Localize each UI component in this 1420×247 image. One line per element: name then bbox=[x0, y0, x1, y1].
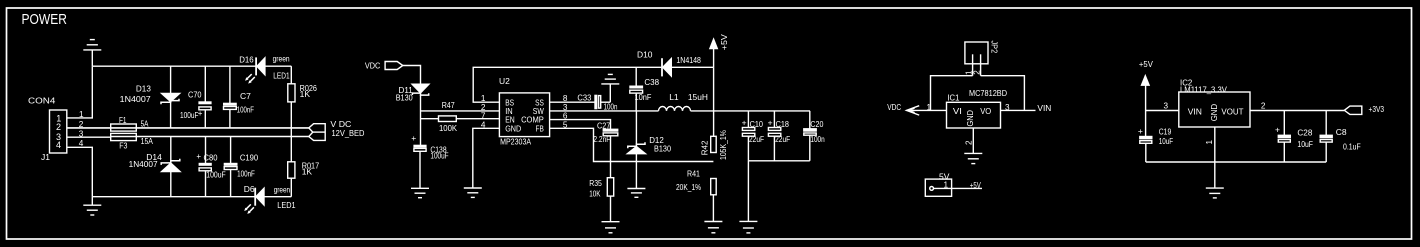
svg-text:105K_1%: 105K_1% bbox=[718, 130, 728, 160]
svg-text:1K: 1K bbox=[300, 89, 311, 99]
ground GND IC2 bbox=[1206, 188, 1224, 198]
resistor R41 20K_1% bbox=[711, 179, 717, 222]
diode D13 1N4007 bbox=[161, 66, 180, 128]
svg-text:C190: C190 bbox=[240, 152, 258, 162]
svg-text:2.2nF: 2.2nF bbox=[593, 134, 610, 144]
capacitor C7 bbox=[224, 66, 237, 128]
svg-text:FB: FB bbox=[536, 123, 545, 133]
svg-text:VOUT: VOUT bbox=[1221, 107, 1243, 117]
wire IC1 GND pin bbox=[972, 128, 974, 153]
wire JP2 pin1 to VI bbox=[931, 76, 973, 111]
port VDC arrow left bbox=[907, 106, 947, 115]
svg-text:15A: 15A bbox=[141, 136, 154, 146]
svg-text:LED1: LED1 bbox=[273, 71, 290, 81]
svg-text:2: 2 bbox=[1261, 101, 1266, 110]
svg-text:20K_1%: 20K_1% bbox=[676, 182, 701, 192]
svg-text:C80: C80 bbox=[204, 152, 218, 162]
svg-text:+: + bbox=[742, 118, 747, 128]
capacitor C8 0.1uF bbox=[1320, 111, 1332, 163]
svg-text:10uF: 10uF bbox=[1297, 139, 1313, 149]
ground GND C138 bbox=[411, 188, 429, 197]
svg-text:10nF: 10nF bbox=[635, 92, 652, 102]
svg-text:10uF: 10uF bbox=[1159, 136, 1173, 146]
wire VDC to D11 bbox=[403, 66, 421, 84]
ground GND R35 bbox=[602, 222, 620, 233]
wire SW node bbox=[550, 110, 659, 112]
svg-text:+3V3: +3V3 bbox=[1369, 104, 1385, 114]
svg-text:IC1: IC1 bbox=[947, 92, 959, 102]
svg-text:green: green bbox=[273, 54, 290, 64]
svg-text:B130: B130 bbox=[654, 144, 671, 154]
wire JP2 pin2 to VO bbox=[981, 76, 1025, 111]
svg-text:10K: 10K bbox=[589, 189, 601, 199]
inductor L1 15uH bbox=[659, 107, 691, 111]
svg-text:U2: U2 bbox=[499, 76, 510, 86]
capacitor C10 22uF bbox=[742, 111, 754, 161]
svg-text:1N4007: 1N4007 bbox=[120, 94, 151, 104]
svg-text:1N4148: 1N4148 bbox=[676, 55, 701, 65]
wire CON4 pin4 drop bbox=[67, 147, 93, 196]
ground GND bottom-left bbox=[83, 197, 101, 215]
svg-text:C7: C7 bbox=[240, 91, 251, 101]
capacitor C138 100uF bbox=[411, 133, 426, 188]
fuse F3 bbox=[111, 133, 137, 140]
wire +5V column bbox=[713, 67, 715, 136]
power +5V arrow section4 bbox=[1142, 76, 1150, 137]
svg-text:VO: VO bbox=[980, 106, 991, 116]
svg-text:1: 1 bbox=[926, 103, 931, 112]
power +5V arrow mid bbox=[710, 39, 717, 67]
svg-text:+5V: +5V bbox=[719, 34, 729, 50]
svg-text:7: 7 bbox=[481, 112, 486, 121]
capacitor C28 10uF bbox=[1278, 111, 1290, 163]
svg-text:C28: C28 bbox=[1297, 127, 1312, 137]
wire VO to VIN bbox=[1001, 109, 1036, 111]
svg-text:1: 1 bbox=[944, 180, 949, 189]
svg-text:R47: R47 bbox=[442, 100, 455, 110]
ground GND R41 bbox=[704, 222, 722, 233]
ground GND top-left (inverted) bbox=[83, 40, 101, 67]
svg-text:JP2: JP2 bbox=[990, 41, 1000, 54]
svg-text:C33: C33 bbox=[577, 92, 591, 102]
wire ground rail top bbox=[92, 65, 256, 67]
wire U2 GND pin to ground bbox=[473, 128, 500, 188]
wire CON4 pin3 to fuse bbox=[67, 136, 111, 138]
svg-text:1N4007: 1N4007 bbox=[129, 159, 158, 169]
resistor R35 10K bbox=[607, 178, 613, 222]
capacitor C33 soft-start bbox=[550, 84, 611, 108]
connector J1 CON4 bbox=[50, 110, 67, 153]
resistor R47 100K bbox=[421, 116, 500, 122]
svg-text:+5V: +5V bbox=[1139, 59, 1153, 69]
svg-text:100n: 100n bbox=[604, 101, 618, 111]
svg-text:+: + bbox=[198, 109, 203, 118]
diode D11 B130 bbox=[412, 84, 429, 145]
svg-text:C8: C8 bbox=[1336, 127, 1347, 137]
wire VOUT to 3V3 bbox=[1250, 110, 1344, 112]
svg-text:F3: F3 bbox=[119, 141, 127, 151]
diode D12 B130 bbox=[627, 111, 645, 189]
svg-text:MP2303A: MP2303A bbox=[500, 136, 531, 146]
svg-text:5A: 5A bbox=[141, 119, 149, 129]
svg-text:C18: C18 bbox=[776, 119, 790, 129]
svg-text:2: 2 bbox=[481, 103, 486, 112]
svg-text:100n: 100n bbox=[810, 134, 824, 144]
wire L1 to output node bbox=[691, 110, 714, 112]
svg-text:22uF: 22uF bbox=[775, 134, 790, 144]
svg-text:+5V: +5V bbox=[970, 180, 981, 190]
svg-text:100uF: 100uF bbox=[180, 110, 199, 120]
svg-text:D10: D10 bbox=[637, 50, 653, 60]
svg-text:100K: 100K bbox=[439, 123, 457, 133]
svg-text:MC7812BD: MC7812BD bbox=[969, 88, 1007, 98]
LED D6 green bbox=[244, 188, 291, 214]
resistor R017 1K bbox=[288, 162, 295, 197]
svg-text:GND: GND bbox=[965, 110, 975, 126]
wire bus 12V lower bbox=[111, 136, 309, 138]
capacitor C19 10uF bbox=[1138, 126, 1152, 162]
svg-text:POWER: POWER bbox=[22, 12, 67, 28]
svg-text:100uF: 100uF bbox=[206, 170, 225, 180]
capacitor C27 2.2nF bbox=[603, 129, 618, 177]
svg-text:B130: B130 bbox=[396, 93, 413, 103]
svg-text:2: 2 bbox=[964, 140, 973, 145]
port +3V3 flag bbox=[1344, 106, 1362, 114]
capacitor C80 bbox=[199, 137, 211, 197]
op IC U2 MP2303A bbox=[499, 93, 549, 137]
svg-text:+: + bbox=[196, 152, 201, 161]
svg-text:100nF: 100nF bbox=[237, 169, 255, 179]
diode D10 1N4148 bbox=[662, 58, 714, 76]
svg-text:C27: C27 bbox=[597, 120, 611, 130]
regulator IC1 MC7812BD bbox=[947, 102, 1001, 128]
svg-text:100uF: 100uF bbox=[430, 151, 448, 161]
svg-text:1: 1 bbox=[79, 110, 84, 119]
svg-text:4: 4 bbox=[56, 140, 61, 150]
svg-text:+: + bbox=[411, 133, 416, 143]
svg-text:VDC: VDC bbox=[365, 60, 380, 70]
capacitor C18 22uF bbox=[768, 111, 780, 161]
svg-text:C38: C38 bbox=[644, 77, 659, 87]
wire BS bootstrap top bbox=[473, 67, 661, 102]
wire caps bottom junction bbox=[748, 161, 809, 222]
wire output rail to caps bbox=[714, 110, 810, 112]
svg-text:J1: J1 bbox=[41, 152, 50, 162]
svg-text:GND: GND bbox=[1209, 104, 1219, 121]
LED D16 green bbox=[245, 57, 291, 83]
svg-text:2: 2 bbox=[56, 122, 61, 132]
svg-text:GND: GND bbox=[505, 123, 521, 133]
svg-text:D16: D16 bbox=[239, 54, 254, 64]
resistor R026 1K bbox=[288, 66, 295, 162]
wire +5V to VIN bbox=[1146, 110, 1179, 112]
ground GND D12 bbox=[627, 189, 645, 198]
connector 5V single pin bbox=[925, 179, 982, 196]
svg-text:100nF: 100nF bbox=[237, 105, 254, 115]
port VDC 12V_BED flag bbox=[309, 124, 325, 141]
svg-text:LED1: LED1 bbox=[277, 200, 295, 210]
svg-text:1K: 1K bbox=[302, 167, 313, 177]
svg-text:VIN: VIN bbox=[1188, 107, 1202, 117]
wire IN to U2 pin2 bbox=[421, 110, 500, 112]
ground GND U2 bbox=[464, 188, 482, 197]
capacitor C38 bootstrap bbox=[630, 67, 643, 111]
svg-text:VIN: VIN bbox=[1037, 103, 1051, 113]
svg-text:L1: L1 bbox=[669, 92, 679, 102]
svg-text:C10: C10 bbox=[750, 119, 764, 129]
svg-text:1: 1 bbox=[1205, 140, 1214, 145]
svg-text:D13: D13 bbox=[136, 83, 151, 93]
svg-text:+: + bbox=[1275, 125, 1280, 135]
svg-text:VDC: VDC bbox=[887, 102, 901, 112]
wire ground rail bottom bbox=[92, 196, 255, 198]
ground GND caps bbox=[739, 221, 757, 233]
connector JP2 bbox=[965, 42, 988, 76]
ground inverted above C33 bbox=[601, 74, 619, 84]
svg-text:CON4: CON4 bbox=[28, 95, 56, 105]
wire CON4 pin1 riser bbox=[67, 66, 93, 118]
fuse F1 bbox=[111, 124, 137, 131]
capacitor C20 100n bbox=[804, 111, 816, 161]
wire IC2 GND pin bbox=[1214, 127, 1216, 188]
capacitor C70 bbox=[199, 66, 211, 128]
svg-text:VI: VI bbox=[953, 106, 962, 116]
svg-text:D6: D6 bbox=[244, 184, 255, 194]
wire section4 ground rail bbox=[1146, 161, 1326, 163]
svg-text:LM1117_3.3V: LM1117_3.3V bbox=[1180, 84, 1227, 94]
wire COMP to C27 bbox=[550, 120, 611, 130]
svg-text:R35: R35 bbox=[589, 178, 602, 188]
ground GND IC1 bbox=[964, 153, 982, 163]
svg-text:C20: C20 bbox=[810, 119, 823, 129]
wire bus 12V upper bbox=[67, 127, 309, 129]
wire FB to divider bbox=[550, 128, 714, 161]
regulator IC2 LM1117_3.3V bbox=[1179, 92, 1250, 127]
svg-text:15uH: 15uH bbox=[688, 92, 708, 102]
port VDC input flag bbox=[385, 62, 403, 70]
svg-text:R41: R41 bbox=[687, 168, 700, 178]
svg-text:22uF: 22uF bbox=[749, 134, 764, 144]
svg-text:+: + bbox=[768, 118, 773, 128]
svg-text:12V_BED: 12V_BED bbox=[332, 128, 365, 138]
svg-text:2: 2 bbox=[973, 70, 982, 75]
svg-text:3: 3 bbox=[1164, 101, 1169, 110]
svg-text:green: green bbox=[274, 185, 291, 195]
svg-text:0.1uF: 0.1uF bbox=[1343, 141, 1361, 151]
svg-text:C70: C70 bbox=[188, 89, 202, 99]
diode D14 1N4007 bbox=[161, 137, 180, 197]
svg-text:+: + bbox=[1138, 126, 1143, 136]
svg-text:F1: F1 bbox=[119, 115, 127, 125]
resistor R42 105K_1% bbox=[711, 136, 717, 152]
svg-text:R42: R42 bbox=[699, 140, 709, 155]
capacitor C190 bbox=[224, 137, 237, 197]
